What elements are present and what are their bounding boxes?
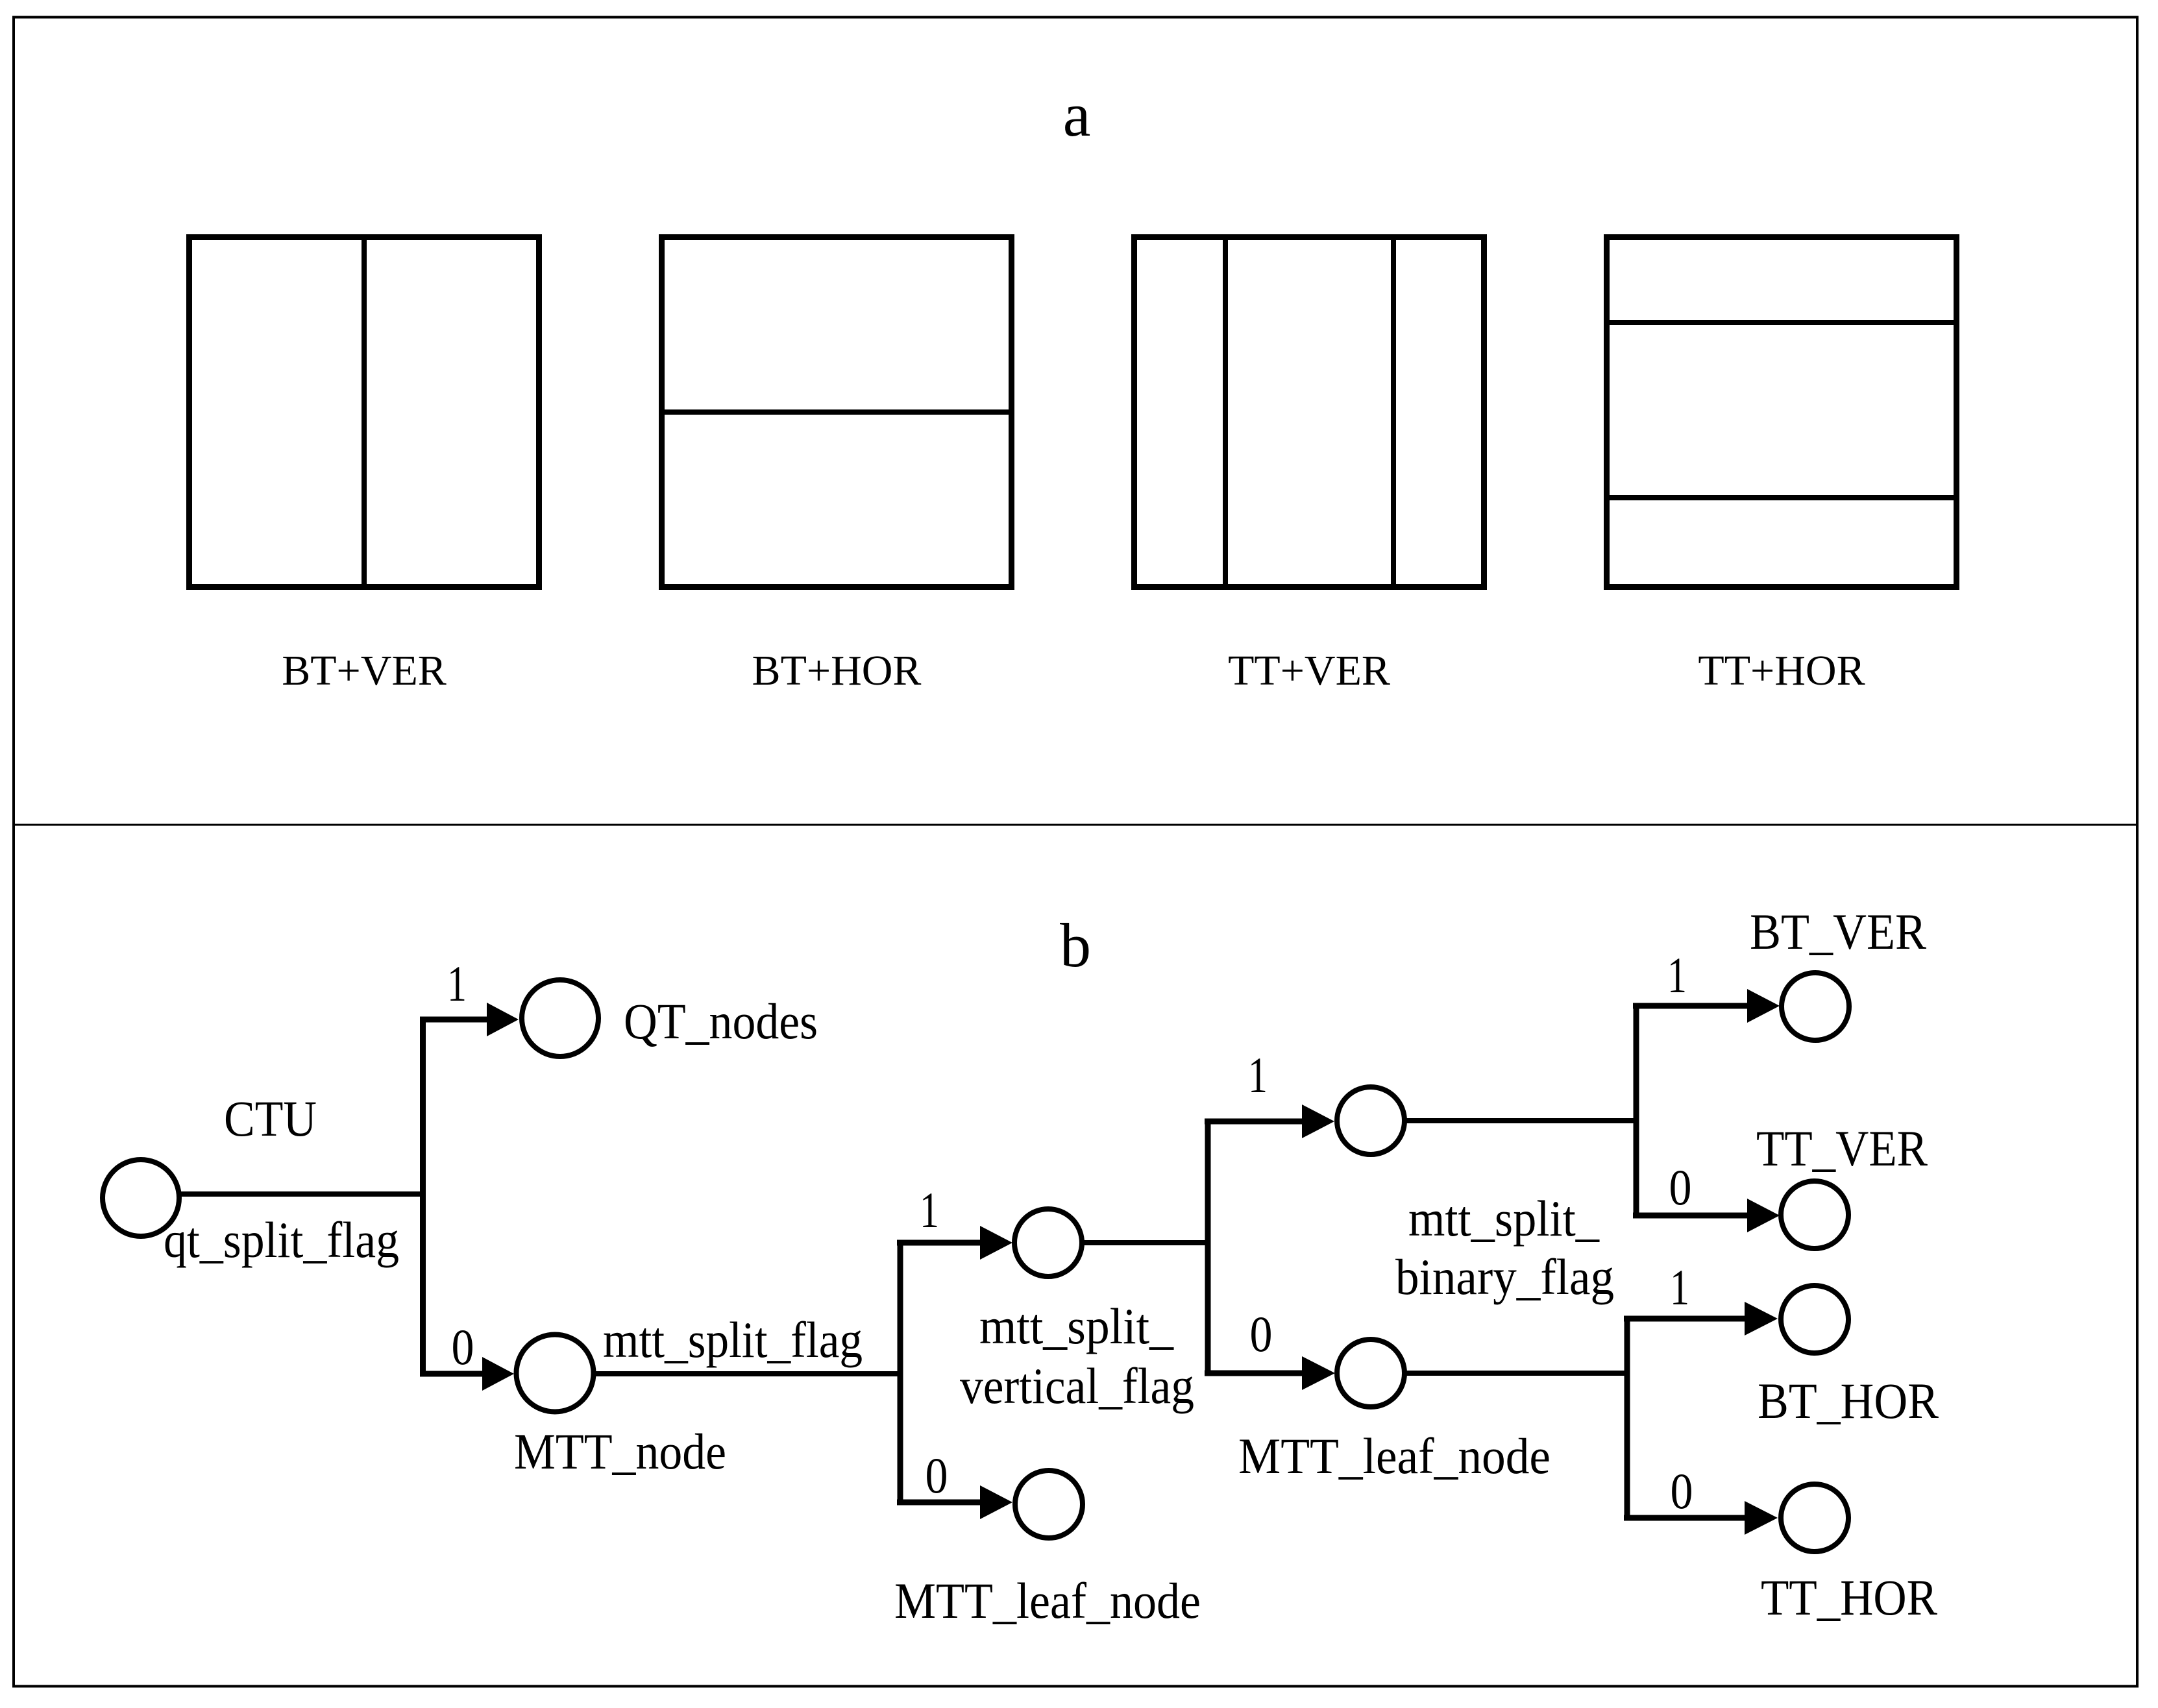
svg-text:TT_HOR: TT_HOR [1761,1569,1937,1626]
wire branch column 3 vertical [1205,1119,1211,1376]
svg-text:BT_VER: BT_VER [1750,903,1926,960]
svg-text:CTU: CTU [224,1090,317,1147]
svg-text:MTT_leaf_node: MTT_leaf_node [894,1572,1201,1629]
node MTT_node [517,1335,594,1412]
arrowhead into BT_VER [1747,989,1780,1023]
arrowhead into MTT_node [482,1357,514,1391]
svg-text:1: 1 [1670,1259,1689,1315]
node TT_VER [1781,1181,1848,1249]
svg-text:a: a [1063,80,1091,149]
square TT+VER [1134,238,1484,587]
svg-text:qt_split_flag: qt_split_flag [164,1212,399,1268]
svg-text:BT+HOR: BT+HOR [752,647,922,694]
TT+HOR first horizontal split line [1604,320,1959,325]
wire branch 3 bottom to binary H node [1205,1371,1303,1376]
wire branch column 2 vertical [898,1240,903,1506]
svg-text:0: 0 [1250,1306,1273,1362]
BT+HOR middle horizontal split line [659,409,1014,415]
arrowhead into binary H node [1302,1356,1335,1390]
wire vertical flag node to branch column 3 [1082,1240,1208,1245]
wire branch 3 top to binary V node [1205,1119,1303,1125]
node binary H (right MTT_leaf_node) [1337,1339,1404,1407]
svg-text:BT_HOR: BT_HOR [1758,1372,1939,1429]
wire binary H node to branch column 5 [1404,1371,1627,1376]
svg-text:TT+HOR: TT+HOR [1698,647,1865,694]
wire branch 5 top to BT_HOR [1624,1316,1746,1322]
square TT+HOR [1607,238,1957,587]
BT+VER middle vertical split line [362,234,367,590]
svg-text:mtt_split_flag: mtt_split_flag [603,1311,863,1368]
wire branch column 1 vertical [420,1017,426,1377]
node TT_HOR [1781,1484,1848,1552]
svg-text:b: b [1060,910,1091,980]
node BT_HOR [1781,1286,1848,1353]
TT+HOR second horizontal split line [1604,495,1959,500]
svg-text:mtt_split_: mtt_split_ [1408,1190,1600,1247]
svg-text:0: 0 [926,1447,948,1504]
svg-text:BT+VER: BT+VER [282,647,447,694]
wire branch 1 top to QT_nodes [420,1017,488,1023]
TT+VER second vertical split line [1391,234,1396,590]
wire MTT_node to branch column 2 [596,1371,900,1376]
svg-text:mtt_split_: mtt_split_ [979,1298,1174,1354]
arrowhead into left MTT_leaf_node [980,1485,1012,1519]
node left MTT_leaf [1015,1470,1083,1538]
wire branch 2 top to vertical flag node [897,1240,981,1246]
svg-text:0: 0 [1669,1159,1692,1215]
svg-text:MTT_node: MTT_node [514,1423,726,1480]
node QT_nodes [522,980,598,1056]
wire branch 1 bottom to MTT_node [420,1371,484,1377]
square BT+HOR [662,238,1012,587]
node BT_VER [1782,973,1849,1040]
svg-text:MTT_leaf_node: MTT_leaf_node [1238,1428,1551,1484]
wire branch 5 bottom to TT_HOR [1624,1515,1746,1521]
square BT+VER [190,238,539,587]
svg-text:0: 0 [452,1319,474,1375]
node mtt_split_vertical_flag [1014,1209,1082,1276]
node binary V [1337,1087,1404,1154]
wire binary V node to branch column 4 [1404,1118,1636,1123]
TT+VER first vertical split line [1223,234,1228,590]
svg-text:0: 0 [1671,1463,1693,1519]
wire branch 2 bottom to MTT_leaf_node [897,1500,981,1506]
arrowhead into QT_nodes [487,1003,519,1036]
node CTU [103,1160,179,1236]
wire branch column 4 vertical [1634,1003,1639,1219]
divider line between section a and b [14,824,2137,826]
svg-text:1: 1 [447,955,467,1012]
svg-text:TT+VER: TT+VER [1228,647,1390,694]
arrowhead into vertical flag node [980,1226,1012,1260]
svg-text:QT_nodes: QT_nodes [624,993,818,1049]
arrowhead into TT_HOR [1745,1501,1778,1535]
svg-text:1: 1 [1667,947,1687,1003]
svg-text:1: 1 [1248,1047,1268,1103]
svg-text:TT_VER: TT_VER [1756,1120,1928,1177]
arrowhead into binary V node [1302,1104,1334,1138]
wire branch 4 bottom to TT_VER [1633,1213,1748,1219]
svg-text:binary_flag: binary_flag [1395,1249,1614,1305]
svg-text:1: 1 [920,1182,939,1238]
arrowhead into TT_VER [1747,1199,1780,1232]
wire CTU to first branch [179,1191,423,1197]
arrowhead into BT_HOR [1745,1302,1778,1336]
wire branch column 5 vertical [1625,1316,1630,1521]
svg-text:vertical_flag: vertical_flag [960,1358,1194,1414]
wire branch 4 top to BT_VER [1633,1003,1748,1009]
